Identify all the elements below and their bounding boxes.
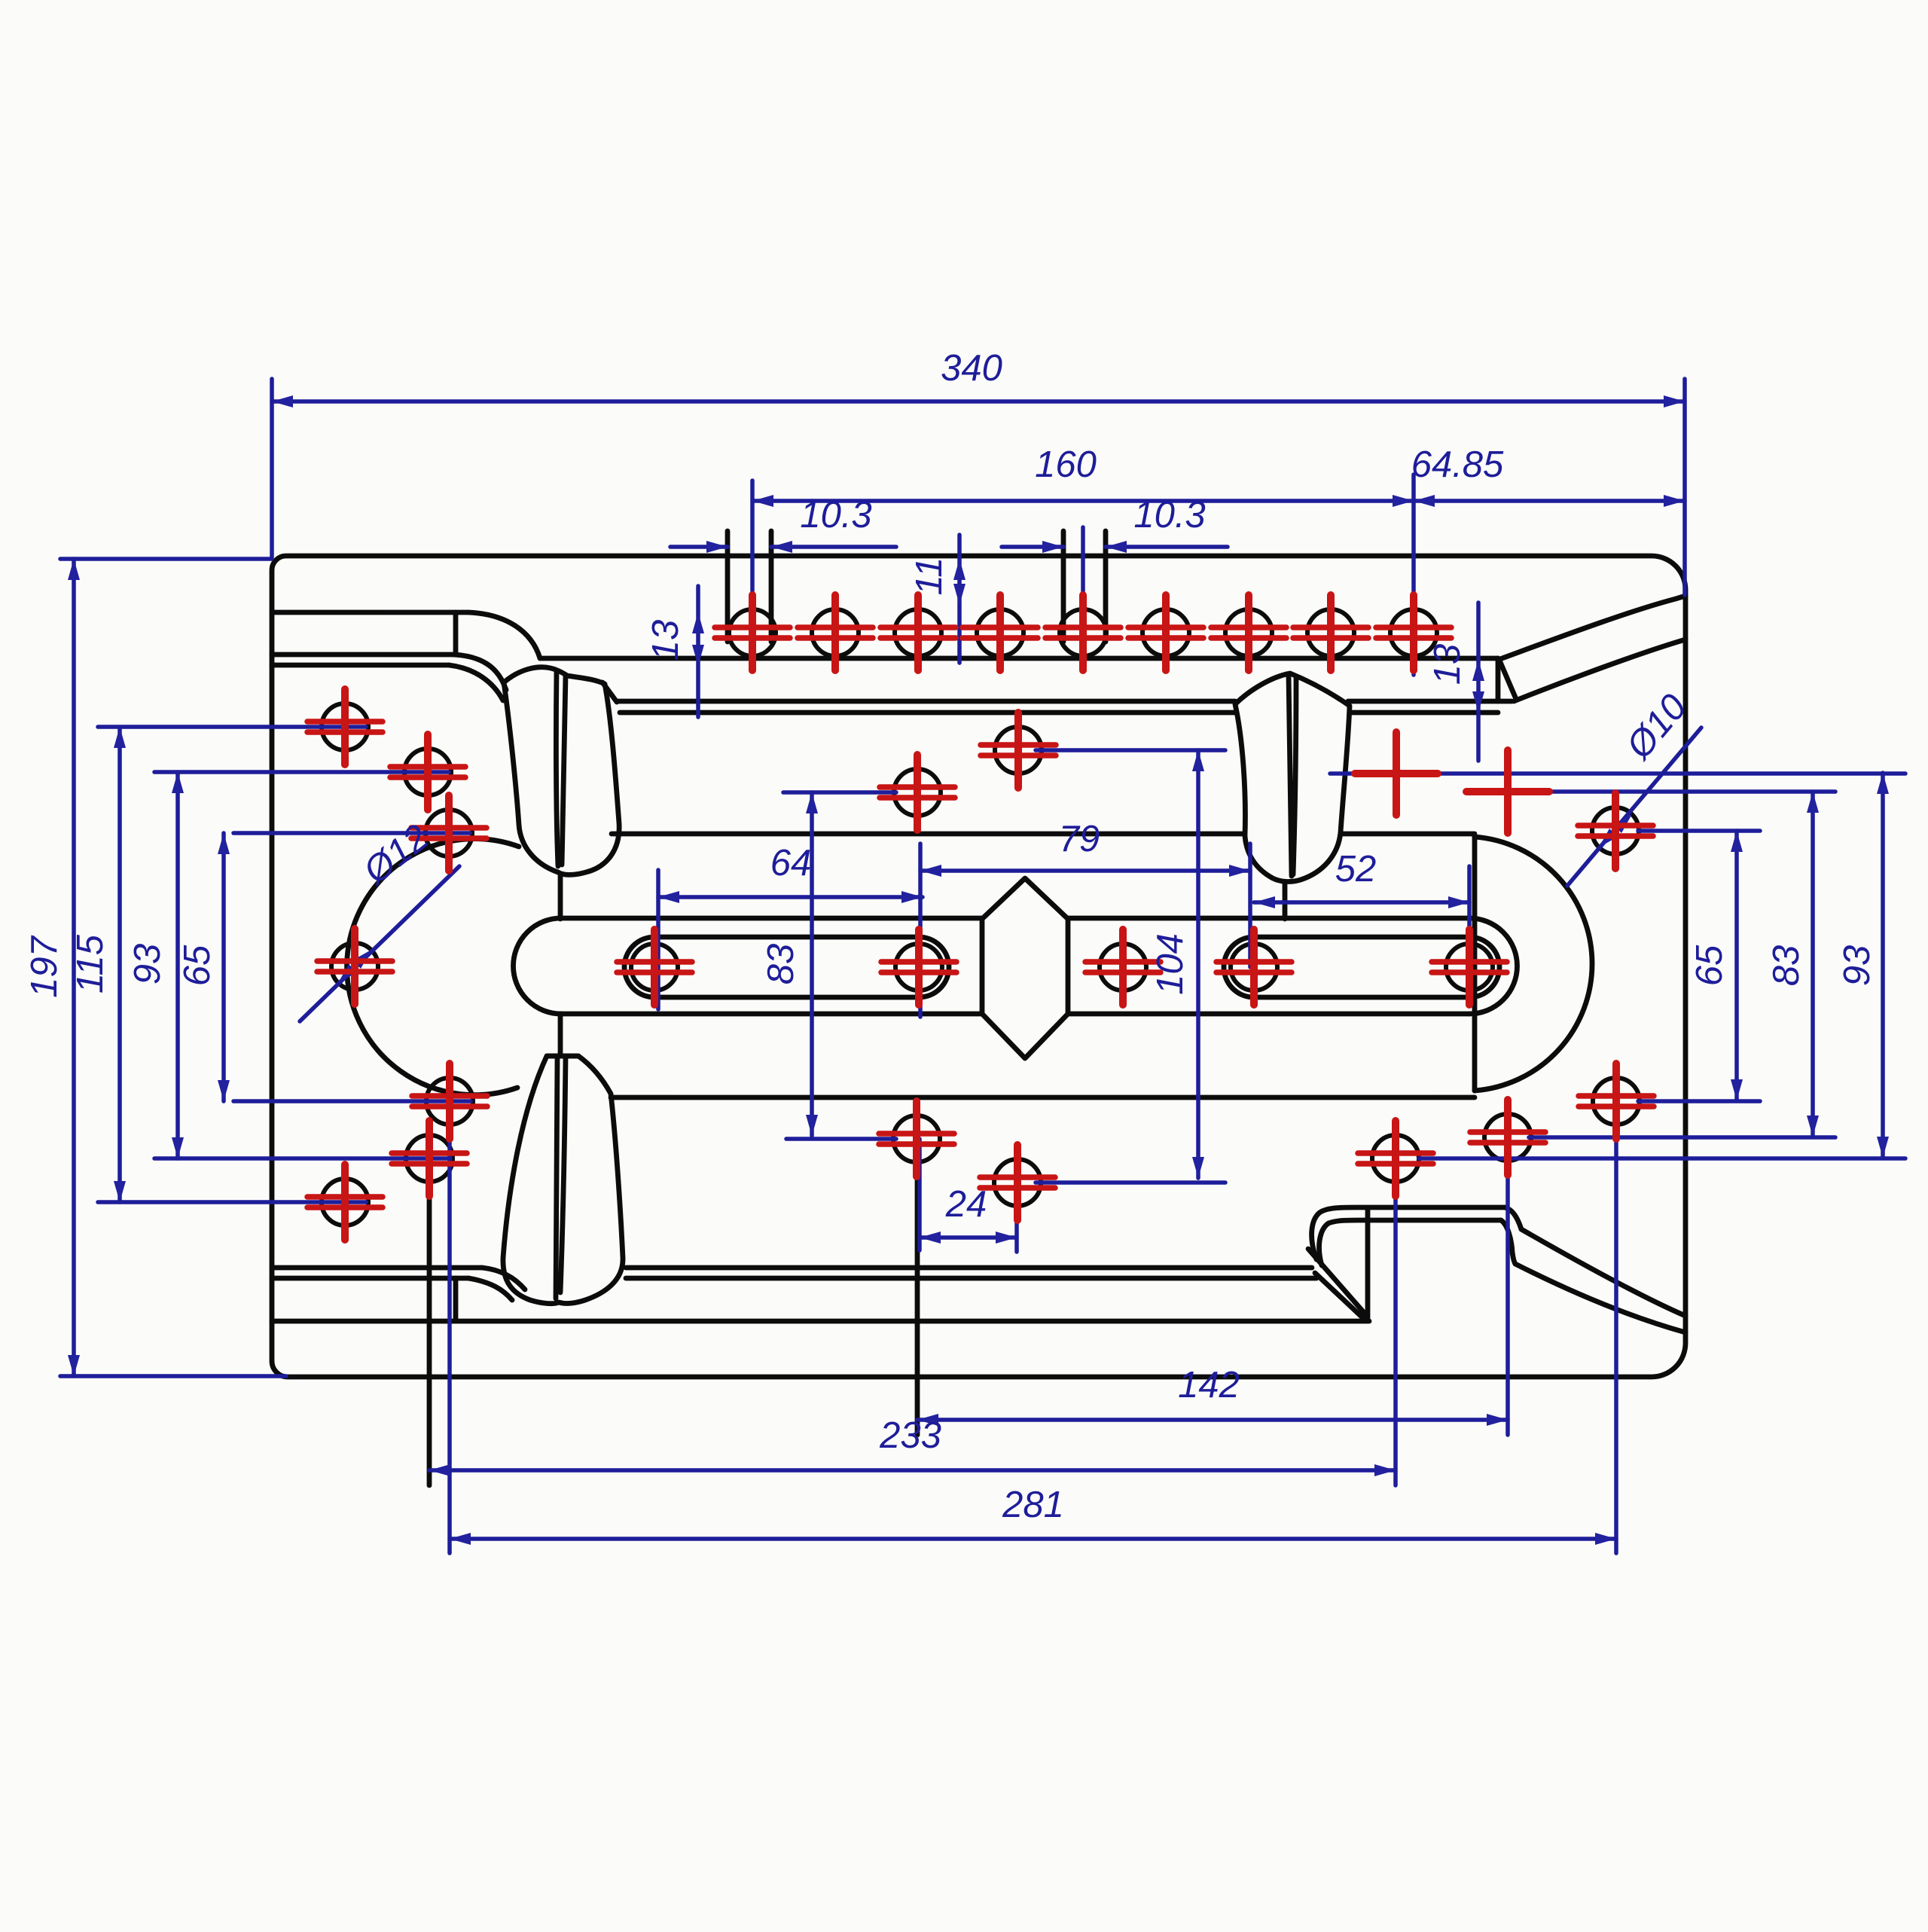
svg-text:65: 65: [177, 945, 218, 986]
svg-text:115: 115: [70, 934, 111, 993]
svg-text:83: 83: [761, 944, 801, 985]
svg-text:93: 93: [1837, 945, 1878, 987]
svg-text:10.3: 10.3: [800, 495, 871, 536]
svg-text:93: 93: [127, 944, 168, 985]
svg-text:64: 64: [770, 843, 812, 884]
svg-text:160: 160: [1035, 444, 1097, 485]
svg-text:11: 11: [909, 557, 950, 596]
svg-text:13: 13: [645, 620, 686, 661]
svg-text:10.3: 10.3: [1133, 495, 1205, 536]
svg-text:233: 233: [879, 1415, 941, 1456]
svg-text:24: 24: [945, 1184, 987, 1225]
svg-text:65: 65: [1689, 945, 1730, 986]
svg-text:79: 79: [1059, 819, 1100, 859]
svg-text:142: 142: [1178, 1365, 1240, 1406]
svg-text:13: 13: [1427, 644, 1468, 685]
svg-text:83: 83: [1766, 945, 1807, 987]
svg-text:104: 104: [1150, 933, 1191, 995]
svg-text:281: 281: [1002, 1485, 1064, 1525]
svg-text:197: 197: [24, 935, 65, 998]
svg-text:52: 52: [1335, 849, 1377, 890]
svg-text:64.85: 64.85: [1411, 444, 1504, 485]
svg-text:340: 340: [941, 348, 1002, 389]
